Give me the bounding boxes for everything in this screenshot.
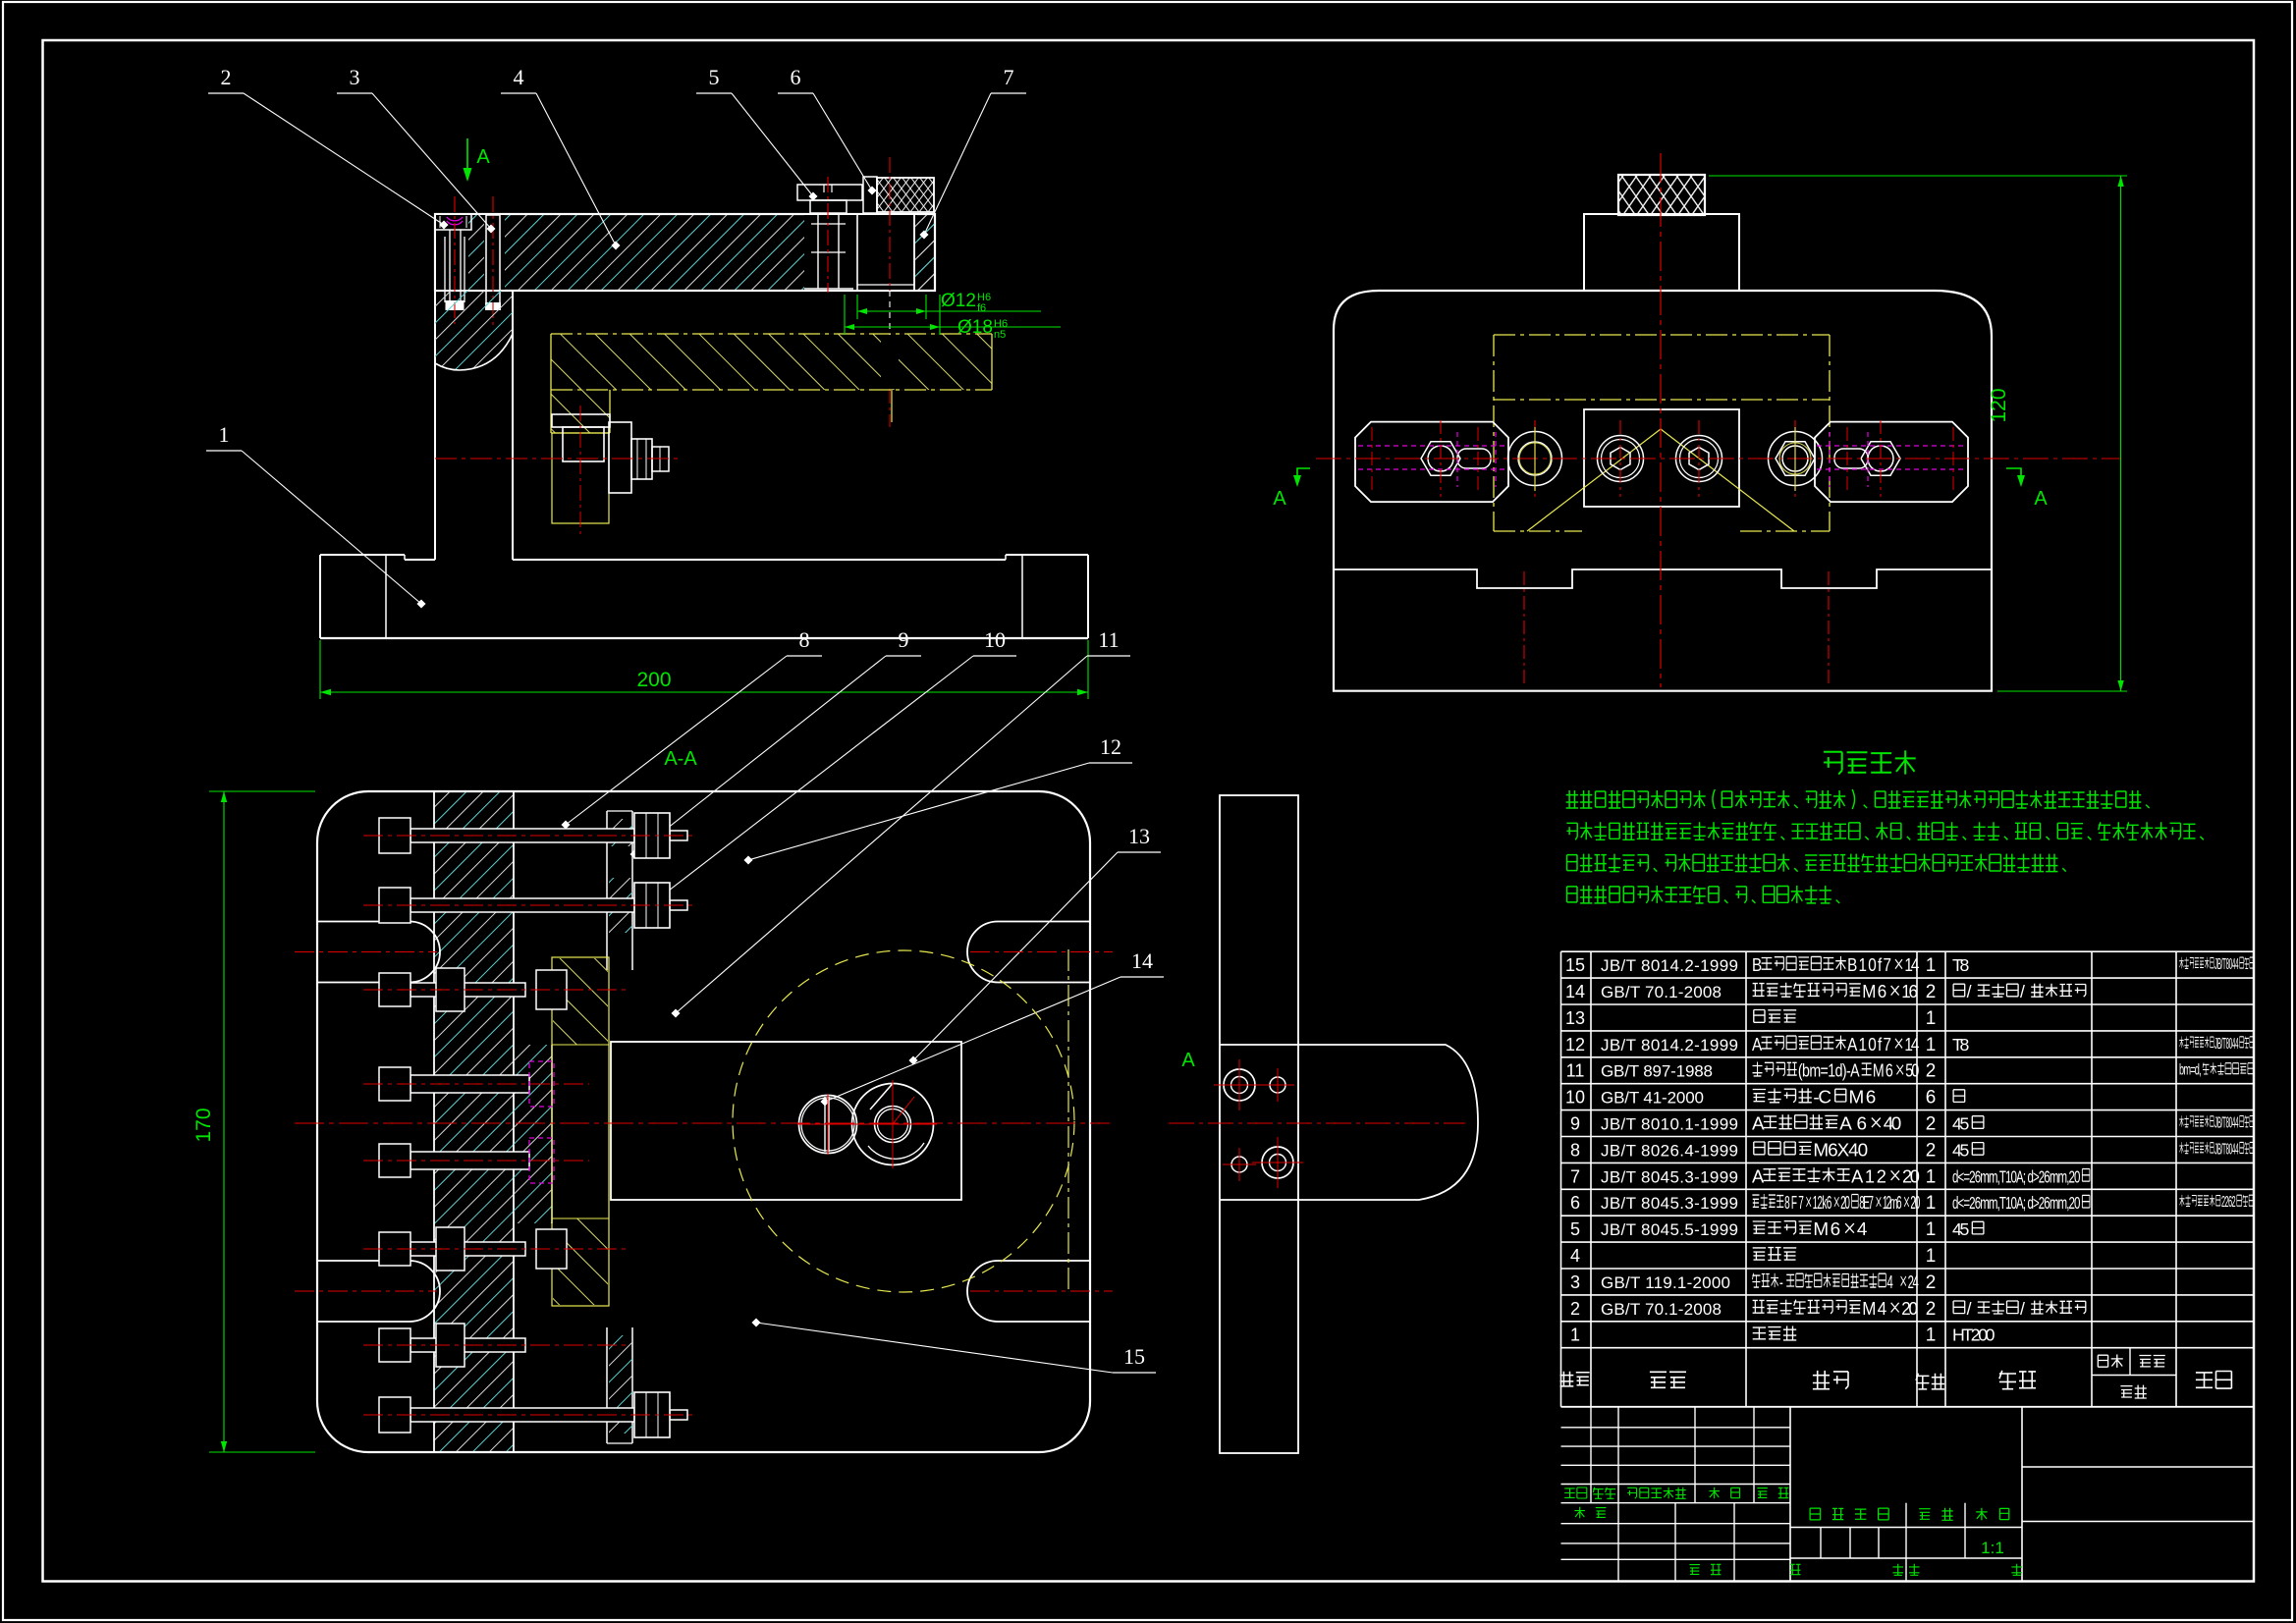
svg-text:12k6: 12k6 (1813, 1193, 1832, 1214)
svg-text:JB/T 8014.2-1999: JB/T 8014.2-1999 (1601, 1036, 1738, 1055)
svg-text:13: 13 (1128, 824, 1150, 848)
svg-text:8: 8 (1570, 1140, 1580, 1160)
svg-text:20: 20 (1910, 1193, 1920, 1214)
svg-text:14: 14 (1131, 948, 1153, 973)
svg-text:14: 14 (1904, 1033, 1919, 1055)
svg-text:20: 20 (1840, 1193, 1850, 1214)
svg-text:A: A (476, 146, 490, 168)
svg-text:M6: M6 (1873, 1060, 1893, 1081)
svg-text:9: 9 (1570, 1114, 1580, 1134)
svg-text:A: A (1752, 1114, 1765, 1135)
svg-text:f6: f6 (977, 302, 986, 314)
svg-text:GB/T 119.1-2000: GB/T 119.1-2000 (1601, 1273, 1730, 1292)
svg-text:JB/T 8045.5-1999: JB/T 8045.5-1999 (1601, 1220, 1738, 1239)
svg-text:A10f7: A10f7 (1847, 1033, 1891, 1055)
svg-text:/: / (2020, 982, 2025, 1001)
svg-text:2: 2 (1926, 1140, 1937, 1161)
svg-text:d<=26mm,T10A; d>26mm,20: d<=26mm,T10A; d>26mm,20 (1952, 1194, 2080, 1214)
svg-text:14: 14 (1565, 982, 1585, 1001)
svg-text:45: 45 (1952, 1114, 1970, 1134)
svg-text:1: 1 (1570, 1325, 1580, 1345)
svg-text:JB/T 8045.3-1999: JB/T 8045.3-1999 (1601, 1167, 1738, 1186)
svg-text:3: 3 (350, 65, 360, 89)
svg-text:14: 14 (1904, 953, 1919, 975)
svg-text:11: 11 (1566, 1061, 1585, 1081)
svg-text:2: 2 (1926, 982, 1937, 1002)
svg-text:45: 45 (1952, 1219, 1970, 1239)
svg-text:n5: n5 (994, 329, 1006, 341)
svg-text:4: 4 (514, 65, 524, 89)
svg-text:1: 1 (1926, 1166, 1937, 1187)
svg-text:A-A: A-A (664, 748, 697, 770)
svg-text:M6: M6 (1813, 1219, 1840, 1240)
svg-text:3: 3 (1570, 1272, 1580, 1292)
svg-text:d<=26mm,T10A; d>26mm,20: d<=26mm,T10A; d>26mm,20 (1952, 1167, 2080, 1187)
svg-text:7: 7 (1004, 65, 1014, 89)
svg-text:40: 40 (1884, 1114, 1902, 1135)
svg-text:GB/T 70.1-2008: GB/T 70.1-2008 (1601, 1300, 1722, 1319)
svg-text:20: 20 (1902, 1165, 1920, 1186)
svg-text:B10f7: B10f7 (1847, 953, 1891, 975)
svg-text:7: 7 (1570, 1166, 1580, 1186)
svg-text:15: 15 (1123, 1344, 1145, 1369)
svg-text:6: 6 (791, 65, 801, 89)
svg-text:Ø18: Ø18 (957, 317, 993, 338)
svg-text:2: 2 (1926, 1272, 1937, 1293)
svg-text:4: 4 (1857, 1219, 1868, 1240)
svg-text:1: 1 (1926, 1325, 1937, 1346)
svg-text:10: 10 (1565, 1088, 1585, 1108)
svg-text:13: 13 (1565, 1008, 1585, 1028)
svg-text:120: 120 (1988, 388, 2010, 422)
svg-text:JB/T 8010.1-1999: JB/T 8010.1-1999 (1601, 1115, 1738, 1134)
svg-text:A: A (1181, 1050, 1195, 1071)
svg-text:A: A (1752, 1033, 1763, 1055)
svg-text:JB/T 8014.2-1999: JB/T 8014.2-1999 (1601, 956, 1738, 975)
svg-text:/: / (1967, 1299, 1972, 1319)
svg-text:5: 5 (709, 65, 720, 89)
svg-text:12: 12 (1100, 734, 1121, 759)
svg-text:8: 8 (799, 627, 810, 652)
svg-text:M6: M6 (1862, 981, 1886, 1001)
svg-text:2: 2 (1926, 1061, 1937, 1082)
svg-text:9: 9 (899, 627, 909, 652)
svg-text:M6X40: M6X40 (1813, 1140, 1868, 1161)
svg-text:JB/T8044: JB/T8044 (2214, 956, 2239, 973)
svg-text:45: 45 (1952, 1140, 1970, 1160)
svg-text:170: 170 (192, 1108, 215, 1142)
svg-text:12m6: 12m6 (1883, 1193, 1902, 1214)
svg-text:6: 6 (1926, 1088, 1937, 1109)
svg-text:M4: M4 (1862, 1298, 1886, 1319)
svg-text:GB/T 70.1-2008: GB/T 70.1-2008 (1601, 983, 1722, 1001)
svg-text:/: / (2020, 1299, 2025, 1319)
svg-text:2: 2 (221, 65, 232, 89)
svg-text:2: 2 (1926, 1114, 1937, 1135)
svg-text:A: A (1752, 1165, 1765, 1186)
svg-text:6: 6 (1570, 1193, 1580, 1213)
svg-text:JB/T 8045.3-1999: JB/T 8045.3-1999 (1601, 1194, 1738, 1213)
svg-text:2: 2 (1926, 1299, 1937, 1320)
svg-text:5: 5 (1570, 1219, 1580, 1239)
svg-text:A: A (1273, 488, 1286, 510)
svg-text:HT200: HT200 (1952, 1325, 1995, 1345)
svg-text:1: 1 (1926, 1246, 1937, 1267)
svg-text:24: 24 (1908, 1272, 1919, 1293)
svg-text:1: 1 (1926, 1219, 1937, 1240)
svg-text:8F7: 8F7 (1784, 1193, 1804, 1214)
svg-text:Ø12: Ø12 (941, 291, 976, 311)
svg-text:JB/T8044: JB/T8044 (2214, 1036, 2239, 1053)
svg-text:8E7: 8E7 (1859, 1193, 1874, 1214)
svg-text:200: 200 (636, 669, 671, 691)
svg-text:4: 4 (1887, 1272, 1894, 1293)
svg-text:bm=d,: bm=d, (2179, 1061, 2202, 1078)
svg-text:GB/T 897-1988: GB/T 897-1988 (1601, 1062, 1713, 1081)
svg-text:12: 12 (1565, 1035, 1585, 1055)
svg-text:JB/T8044: JB/T8044 (2214, 1114, 2239, 1131)
svg-text:A: A (2034, 488, 2048, 510)
svg-text:1: 1 (1926, 1035, 1937, 1055)
svg-text:1: 1 (1926, 955, 1937, 976)
svg-text:1: 1 (219, 422, 230, 447)
svg-text:JB/T 8026.4-1999: JB/T 8026.4-1999 (1601, 1141, 1738, 1160)
svg-text:M6: M6 (1849, 1088, 1877, 1109)
svg-text:10: 10 (984, 627, 1006, 652)
svg-text:1: 1 (1926, 1193, 1937, 1214)
svg-text:/: / (1967, 982, 1972, 1001)
svg-text:-: - (1779, 1272, 1783, 1293)
svg-text:20: 20 (1901, 1298, 1918, 1319)
svg-text:4: 4 (1570, 1246, 1580, 1266)
svg-text:50: 50 (1905, 1060, 1919, 1081)
svg-text:T8: T8 (1952, 955, 1970, 975)
svg-text:A12: A12 (1851, 1165, 1886, 1186)
svg-text:2262: 2262 (2221, 1193, 2236, 1211)
svg-text:GB/T 41-2000: GB/T 41-2000 (1601, 1089, 1704, 1108)
svg-text:1: 1 (1926, 1008, 1937, 1029)
svg-text:JB/T8044: JB/T8044 (2214, 1141, 2239, 1158)
svg-text:2: 2 (1570, 1299, 1580, 1319)
svg-text:1:1: 1:1 (1981, 1539, 2004, 1557)
svg-text:(bm=1d)-A: (bm=1d)-A (1798, 1060, 1860, 1081)
svg-text:-C: -C (1813, 1088, 1831, 1109)
svg-text:15: 15 (1565, 955, 1585, 975)
svg-text:16: 16 (1901, 981, 1918, 1001)
svg-text:11: 11 (1098, 627, 1119, 652)
svg-text:B: B (1752, 953, 1762, 975)
svg-text:T8: T8 (1952, 1035, 1970, 1055)
